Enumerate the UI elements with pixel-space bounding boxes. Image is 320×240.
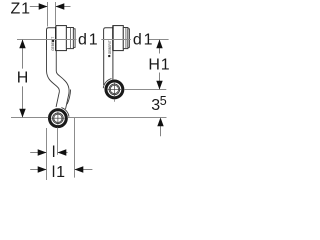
left fitting: outer cone edge line at bend xyxy=(67,90,71,105)
H dimension line xyxy=(22,40,24,69)
svg-text:Z1: Z1 xyxy=(11,1,31,18)
l1 dimension extension line right xyxy=(74,118,76,178)
left fitting: union nut white base xyxy=(48,108,68,128)
Z1 arrow tails xyxy=(30,6,48,8)
right fitting: press socket body xyxy=(104,28,113,50)
right fitting: end lip xyxy=(128,29,129,48)
right fitting: GEBERIT marking xyxy=(108,55,110,57)
l1 arrow tails xyxy=(30,169,46,171)
left fitting: nut cross centerlines xyxy=(51,112,64,125)
right fitting: nut cross centerlines xyxy=(108,83,121,96)
Z1 extension lines xyxy=(47,2,49,27)
H arrowheads xyxy=(19,40,25,49)
right nut axis extension line xyxy=(124,89,166,91)
svg-text:H1: H1 xyxy=(148,56,170,73)
bottom long datum line xyxy=(11,117,167,119)
svg-text:d1: d1 xyxy=(78,32,99,49)
left nut vertical centerline below xyxy=(57,128,59,155)
right fitting: union nut white base xyxy=(104,79,124,99)
left fitting: cone arc at nut top-right xyxy=(61,108,69,117)
svg-text:d1: d1 xyxy=(133,32,154,49)
left fitting: GEBERIT marking xyxy=(52,40,54,42)
left fitting: S-bend tube body xyxy=(51,39,64,109)
svg-text:GEBERIT: GEBERIT xyxy=(108,40,112,54)
l arrowheads xyxy=(38,149,47,155)
svg-text:l: l xyxy=(52,144,56,161)
3^5 arrowhead xyxy=(157,118,163,127)
right fitting: sleeve junction line xyxy=(112,26,114,51)
left fitting: press socket body xyxy=(47,28,56,50)
3^5 leader line xyxy=(160,125,162,136)
l dimension extension line left xyxy=(46,128,48,180)
left fitting: nut rings xyxy=(48,109,67,128)
top axis centerline through both sockets xyxy=(17,39,169,41)
H1 dimension line xyxy=(159,40,161,54)
right fitting: collar xyxy=(123,28,128,49)
svg-text:l1: l1 xyxy=(52,164,66,180)
l1 arrowheads xyxy=(38,166,47,172)
svg-text:GEBERIT: GEBERIT xyxy=(51,37,55,51)
right fitting: press sleeve xyxy=(113,26,123,51)
right fitting: cone arc at nut top-left xyxy=(103,79,111,89)
l arrow tails xyxy=(30,152,46,154)
H1 arrowheads xyxy=(156,40,162,49)
Z1 arrowheads xyxy=(39,3,48,9)
left fitting: end lip xyxy=(73,29,75,48)
left fitting: collar inner line xyxy=(70,28,72,48)
right fitting: collar inner line xyxy=(125,28,127,48)
left fitting: sleeve junction line xyxy=(55,26,57,51)
right fitting: straight tube body xyxy=(104,38,113,85)
svg-text:5: 5 xyxy=(160,94,167,108)
left fitting: collar xyxy=(66,28,73,49)
right nut vertical stub below xyxy=(114,99,116,102)
right fitting: nut rings xyxy=(105,80,124,99)
svg-text:H: H xyxy=(17,70,29,87)
left fitting: press sleeve xyxy=(56,26,67,51)
